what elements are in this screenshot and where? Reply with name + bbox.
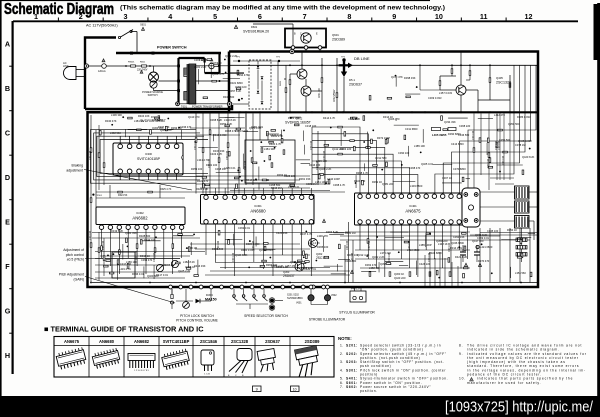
wires lower mid verticals [311, 127, 313, 185]
svg-text:D398 33K: D398 33K [404, 76, 416, 80]
svg-text:Q319 47K: Q319 47K [391, 75, 403, 79]
svg-text:SPEED SELECTOR SWITCH: SPEED SELECTOR SWITCH [244, 314, 288, 318]
wire loops around IC300 [91, 130, 197, 184]
svg-text:R364 1K: R364 1K [277, 173, 287, 177]
svg-text:R359 100: R359 100 [191, 167, 203, 171]
svg-text:8.: 8. [459, 344, 463, 348]
svg-text:C30 100: C30 100 [208, 158, 211, 168]
svg-text:L381 1K: L381 1K [134, 119, 144, 123]
ruler top line [13, 20, 578, 22]
svg-text:P4B 1.9: P4B 1.9 [351, 288, 360, 291]
svg-text:A: A [5, 40, 10, 49]
svg-text:AC 117V(50/60Hz): AC 117V(50/60Hz) [86, 24, 118, 28]
scan edge right [597, 3, 600, 397]
svg-text:L348 1K: L348 1K [438, 242, 448, 246]
svg-text:AN6680: AN6680 [250, 209, 266, 214]
svg-text:TP301: TP301 [96, 195, 103, 197]
diode D304 MA150 [196, 299, 201, 303]
transformer bottom connector line [178, 103, 231, 105]
svg-text:C390 100: C390 100 [398, 151, 410, 155]
svg-text:V601: V601 [296, 302, 302, 305]
svg-text:Q425 2.2K: Q425 2.2K [178, 269, 191, 273]
power transformer T601 windings [184, 64, 196, 104]
wires mid horizontals extra rungs [196, 175, 310, 177]
svg-text:Q354 560: Q354 560 [508, 122, 520, 126]
package drawing 2SC1846 [201, 350, 214, 376]
svg-text:R314 0.01: R314 0.01 [450, 246, 463, 250]
IC401 bottom pins [358, 220, 362, 224]
svg-text:Q346 6800: Q346 6800 [451, 241, 464, 245]
transistor Q402 2SC1328 [456, 85, 466, 95]
svg-text:E: E [5, 218, 10, 227]
svg-text:C30 100: C30 100 [323, 150, 326, 160]
svg-text:Q601: Q601 [332, 33, 339, 37]
left edge components [90, 148, 92, 153]
svg-text:F: F [5, 262, 10, 271]
svg-text:R336 0.01: R336 0.01 [132, 272, 145, 276]
connector ring left edge [227, 102, 231, 106]
svg-text:C368 1M: C368 1M [215, 167, 226, 171]
wires rectifier outputs [277, 61, 279, 112]
svg-text:4.: 4. [340, 368, 344, 372]
IC302 pins [99, 225, 103, 229]
right vertical wires [499, 112, 501, 180]
wires middle vertical bundle [195, 114, 197, 194]
strobe lamp V602 [326, 285, 330, 289]
mid box [245, 140, 295, 183]
svg-text:C602 25WV: C602 25WV [334, 89, 336, 102]
svg-text:L351 560: L351 560 [515, 271, 526, 275]
svg-text:D363 8.2K: D363 8.2K [326, 230, 339, 234]
svg-text:220-240V: 220-240V [137, 69, 148, 72]
svg-text:12: 12 [525, 12, 533, 21]
power section outline [85, 38, 116, 110]
svg-text:C30 100: C30 100 [217, 240, 220, 250]
leader line braking [84, 170, 192, 191]
stylus lamp [350, 291, 366, 302]
svg-text:Q312 560: Q312 560 [375, 156, 387, 160]
svg-text:D314 1K: D314 1K [383, 115, 393, 119]
svg-text:STROBE ILLUMINATOR: STROBE ILLUMINATOR [309, 318, 346, 322]
svg-text:D365 100: D365 100 [317, 245, 329, 249]
wires down to bottom edge right [424, 255, 426, 287]
leader line gain [85, 277, 175, 304]
rectifier dashed box D601 [249, 60, 271, 109]
wires below AN6675 [359, 232, 361, 250]
svg-text:C30 100: C30 100 [487, 158, 490, 168]
svg-text:Pitch Adjustment: Pitch Adjustment [59, 273, 84, 277]
svg-text:L385 10K: L385 10K [414, 144, 425, 148]
svg-text:C30 100: C30 100 [89, 150, 92, 160]
svg-text:7: 7 [303, 12, 307, 21]
svg-text:L357 0.033: L357 0.033 [439, 91, 453, 95]
wires right side loops [468, 65, 536, 193]
svg-text:C368 470: C368 470 [409, 166, 421, 170]
AC line wire [89, 65, 102, 67]
svg-text:V602: V602 [331, 294, 337, 297]
svg-text:[1093x725] http://upic.me/: [1093x725] http://upic.me/ [445, 399, 594, 416]
package drawing 2SD389 [294, 345, 322, 377]
svg-text:4: 4 [168, 12, 172, 21]
svg-text:D601: D601 [251, 25, 258, 29]
svg-text:2SD637: 2SD637 [349, 83, 362, 87]
svg-text:L405 3W05: L405 3W05 [432, 133, 447, 137]
scan edge top [0, 0, 430, 1]
svg-text:120mA: 120mA [98, 70, 106, 73]
svg-text:DB LINE: DB LINE [354, 56, 370, 61]
IC302 AN6682 [96, 207, 185, 225]
svg-text:S602:: S602: [346, 385, 358, 389]
svg-text:D319 8.2K: D319 8.2K [111, 229, 124, 233]
svg-text:10: 10 [435, 12, 443, 21]
line filter components FB601 [131, 65, 136, 67]
test point dots top [238, 60, 240, 62]
svg-text:Q374 8.2K: Q374 8.2K [475, 233, 488, 237]
svg-text:2SD637: 2SD637 [265, 339, 281, 344]
svg-text:Q321 2.2K: Q321 2.2K [194, 65, 207, 69]
IC301 bottom pins [204, 220, 208, 224]
svg-text:R316 0.033: R316 0.033 [213, 133, 227, 137]
svg-text:R341 560: R341 560 [223, 95, 235, 99]
svg-text:Q363 2.2K: Q363 2.2K [225, 54, 238, 58]
svg-text:Q405 0.033: Q405 0.033 [518, 139, 532, 143]
wires staircase to AN6675 top pins [312, 127, 360, 193]
svg-text:R325 4.7K: R325 4.7K [160, 188, 172, 191]
svg-text:Q423 220: Q423 220 [394, 276, 406, 280]
wires upper mid connections [245, 114, 247, 141]
svg-text:IC301: IC301 [254, 204, 262, 208]
svg-text:9: 9 [256, 388, 258, 392]
ruler left line [12, 21, 14, 374]
svg-text:POWER SWITCH: POWER SWITCH [157, 46, 187, 50]
svg-text:D416 220: D416 220 [309, 163, 321, 167]
ruler left ticks [9, 65, 12, 67]
svg-text:D304: D304 [206, 293, 213, 297]
svg-text:Q406 2.2K: Q406 2.2K [319, 167, 332, 171]
note list left column [340, 344, 448, 394]
svg-text:R316 1M: R316 1M [271, 186, 282, 190]
ruler row letters A-H [5, 40, 11, 361]
AC line ring left [84, 64, 88, 68]
svg-text:R364 4.7K: R364 4.7K [271, 134, 284, 138]
wires below AN6680 [205, 232, 207, 255]
svg-text:6: 6 [258, 12, 262, 21]
svg-text:D344 100: D344 100 [144, 238, 156, 242]
svg-text:R404 10K: R404 10K [138, 114, 150, 118]
svg-text:D416 33K: D416 33K [194, 264, 206, 268]
voltage selector switch S602 [149, 72, 159, 82]
svg-text:L382 8.2K: L382 8.2K [183, 260, 195, 264]
svg-text:AN6682: AN6682 [132, 216, 148, 221]
svg-text:H: H [5, 351, 10, 360]
svg-text:C30 100: C30 100 [102, 240, 105, 250]
svg-text:C30 100: C30 100 [226, 150, 229, 160]
svg-text:C368 4.7K: C368 4.7K [333, 183, 346, 187]
svg-text:C336 470: C336 470 [180, 125, 192, 129]
svg-text:Q405: Q405 [496, 76, 503, 80]
svg-text:D368 8.2K: D368 8.2K [210, 118, 223, 122]
IC300 bottom pins [118, 169, 123, 174]
svg-text:C30 100: C30 100 [368, 240, 371, 250]
svg-text:C309 0.033: C309 0.033 [428, 96, 442, 100]
svg-text:R601: R601 [140, 62, 146, 64]
trimmer VR302 [156, 264, 163, 271]
svg-text:Adjustment of: Adjustment of [63, 248, 84, 252]
svg-text:SWITCH: SWITCH [148, 94, 158, 97]
svg-text:AN6675: AN6675 [64, 339, 80, 344]
scattered rotated labels [89, 130, 505, 262]
svg-text:R398 4.7K: R398 4.7K [356, 171, 369, 175]
svg-text:2.: 2. [340, 352, 344, 356]
svg-text:S203:: S203: [346, 360, 358, 364]
svg-text:S201:: S201: [346, 344, 358, 348]
svg-text:Braking: Braking [72, 164, 84, 168]
svg-text:LINE: LINE [63, 64, 69, 68]
transistor Q302 2SC1846 [308, 238, 317, 247]
svg-text:L410 8.2K: L410 8.2K [162, 263, 174, 267]
wires right of DB line [419, 65, 421, 90]
package drawing SWTC4011BP DIP [161, 349, 190, 371]
svg-text:R361 33K: R361 33K [299, 177, 311, 181]
svg-text:C30 100: C30 100 [388, 252, 391, 262]
svg-text:2SD389: 2SD389 [305, 339, 321, 344]
svg-text:D386 0.033: D386 0.033 [517, 115, 531, 119]
watermark bar [0, 396, 600, 417]
components on middle bundle [195, 138, 197, 143]
svg-text:adjustment: adjustment [66, 168, 83, 172]
svg-text:SVITC4011BP: SVITC4011BP [163, 339, 190, 344]
svg-text:C: C [5, 129, 10, 138]
svg-text:D414 4.7K: D414 4.7K [323, 116, 336, 120]
left inner column wires [98, 125, 100, 190]
AC LINE plug [64, 67, 86, 80]
svg-text:C368 220: C368 220 [459, 124, 471, 128]
motor M401 [462, 188, 480, 227]
note warning triangle [470, 378, 474, 381]
svg-text:C420 33K: C420 33K [276, 231, 288, 235]
svg-text:C30 100: C30 100 [472, 130, 475, 140]
IC301 AN6680 [201, 195, 315, 225]
main schematic box outline [88, 52, 539, 288]
svg-text:S202:: S202: [346, 352, 358, 356]
svg-text:L310 8.2K: L310 8.2K [224, 118, 236, 122]
svg-text:C345 100: C345 100 [487, 229, 499, 233]
svg-text:C30 100: C30 100 [498, 140, 501, 150]
pitch control volume VR301 [183, 302, 190, 309]
wires bottom left extra [95, 251, 205, 253]
package drawing 2SC1328 [228, 349, 252, 378]
svg-text:G: G [5, 307, 11, 316]
svg-text:L412 470: L412 470 [494, 113, 505, 117]
left edge vertical wires [90, 115, 92, 283]
junction dots on main bus [195, 111, 197, 113]
svg-text:C413 6800: C413 6800 [451, 142, 464, 146]
svg-text:SVITC4011BP: SVITC4011BP [137, 157, 161, 161]
svg-text:C378 1M: C378 1M [515, 143, 526, 147]
IC300 top pins [118, 144, 123, 149]
transistor box Q601 [285, 29, 326, 48]
components below AN6675 [369, 272, 371, 277]
svg-text:L306 33K: L306 33K [111, 113, 122, 117]
svg-text:D390 6800: D390 6800 [448, 132, 461, 136]
svg-text:C307 1K: C307 1K [442, 176, 452, 180]
svg-text:Q420 8.2K: Q420 8.2K [522, 155, 535, 159]
svg-text:S301:: S301: [346, 368, 358, 372]
svg-text:IC401: IC401 [409, 204, 417, 208]
svg-text:■ TERMINAL GUIDE OF TRANSISTOR: ■ TERMINAL GUIDE OF TRANSISTOR AND IC [44, 325, 204, 334]
middle gap verticals [344, 245, 346, 283]
svg-text:C30 100: C30 100 [89, 230, 92, 240]
wire DB arrow tail [343, 77, 345, 112]
svg-text:3: 3 [124, 12, 128, 21]
svg-text:D316 1K: D316 1K [140, 254, 150, 258]
svg-text:C30 100: C30 100 [252, 240, 255, 250]
svg-text:AN6675: AN6675 [405, 209, 421, 214]
svg-text:R340 47K: R340 47K [105, 119, 117, 123]
svg-text:2SC1846: 2SC1846 [200, 339, 218, 344]
package drawing AN6675 [56, 347, 87, 370]
svg-text:C30 100: C30 100 [194, 140, 197, 150]
svg-text:D5.1: D5.1 [349, 78, 355, 82]
svg-text:D383 33K: D383 33K [288, 116, 300, 120]
svg-text:Q412 220: Q412 220 [332, 147, 344, 151]
page ref mark 9 [253, 386, 262, 392]
svg-text:R308 2.2K: R308 2.2K [301, 266, 314, 270]
IC300 SW/TC4011BP [113, 143, 183, 175]
terminal guide table frame [54, 337, 334, 378]
wires mid horizontals [190, 127, 245, 129]
scattered junction dots [225, 72, 227, 74]
connector ring top edge [290, 49, 294, 53]
svg-text:D370 470: D370 470 [478, 259, 490, 263]
svg-text:C30 100: C30 100 [316, 160, 319, 170]
svg-text:position.: position. [360, 389, 378, 393]
svg-text:SVDSR1B5C: SVDSR1B5C [287, 296, 303, 300]
transformer secondary taps [196, 65, 230, 67]
svg-text:S601: S601 [140, 24, 146, 27]
svg-text:D: D [5, 173, 10, 182]
trimmer VR303 [171, 260, 178, 267]
svg-text:R324 5K: R324 5K [118, 194, 128, 197]
IC401 AN6675 [355, 193, 474, 225]
svg-text:2SC1328: 2SC1328 [496, 81, 511, 85]
svg-text:L303 6800: L303 6800 [410, 184, 423, 188]
svg-text:C30 100: C30 100 [351, 252, 354, 262]
svg-text:Q383 2.2K: Q383 2.2K [271, 264, 284, 268]
long bus lines below ICs [92, 232, 348, 234]
power switch S601 [118, 36, 120, 38]
svg-text:NOTE:: NOTE: [338, 336, 352, 341]
wire pitch to diode [176, 300, 193, 302]
svg-text:2: 2 [79, 12, 83, 21]
svg-text:Q400 560: Q400 560 [147, 274, 159, 278]
svg-text:C30 100: C30 100 [408, 240, 411, 250]
scattered short wires [223, 77, 240, 79]
svg-text:3.: 3. [340, 360, 344, 364]
svg-text:Q413 470: Q413 470 [188, 115, 200, 119]
capacitor pair right [460, 251, 466, 253]
svg-text:9: 9 [392, 12, 396, 21]
svg-text:1: 1 [34, 12, 38, 21]
svg-text:POWER TRANSFORMER: POWER TRANSFORMER [192, 105, 223, 109]
package drawing AN6682 SIP [128, 354, 155, 373]
svg-text:C403 4.7K: C403 4.7K [210, 152, 223, 156]
svg-text:PITCH LOCK SWITCH: PITCH LOCK SWITCH [180, 314, 214, 318]
svg-text:L358 1M: L358 1M [369, 266, 379, 270]
svg-text:Q424 8.2K: Q424 8.2K [235, 253, 248, 257]
coil small bars [516, 238, 527, 242]
package drawing AN6680 [92, 348, 121, 369]
wires above AN6682 [96, 197, 185, 199]
svg-text:10: 10 [293, 388, 297, 392]
terminal guide headers [64, 339, 320, 344]
note list right column [459, 344, 587, 385]
svg-text:C30 100: C30 100 [153, 252, 156, 262]
svg-text:B: B [5, 84, 10, 93]
svg-text:8: 8 [347, 12, 351, 21]
svg-text:±0.5 (Pitch): ±0.5 (Pitch) [67, 258, 84, 262]
svg-text:C30 100: C30 100 [310, 140, 313, 150]
svg-text:R: R [284, 78, 286, 81]
svg-text:C399 470: C399 470 [141, 258, 153, 262]
pitch sub box [112, 252, 135, 278]
ruler column numbers 1-12 [34, 12, 533, 21]
junction dots bus 65 [289, 64, 291, 66]
wires Q601 to box top [292, 49, 294, 51]
svg-text:L331 4.7K: L331 4.7K [308, 241, 320, 245]
speed selector switch S201 [233, 289, 235, 294]
svg-text:C30 100: C30 100 [428, 252, 431, 262]
svg-text:D347 4.7K: D347 4.7K [300, 232, 313, 236]
svg-text:L421 6800: L421 6800 [480, 245, 493, 249]
svg-text:Q361 33K: Q361 33K [125, 231, 137, 235]
svg-text:R380 1M: R380 1M [345, 231, 356, 235]
wires around 2SD637 [290, 73, 297, 75]
fuse F602 120mA [102, 64, 107, 69]
package drawing 2SD637 [257, 349, 277, 373]
svg-text:C30 100: C30 100 [346, 240, 349, 250]
svg-text:AN6682: AN6682 [134, 339, 150, 344]
resistor stack 2SC1328 [451, 65, 453, 76]
svg-text:Q327 100: Q327 100 [210, 61, 222, 65]
svg-text:PITCH CONTROL VOLUME: PITCH CONTROL VOLUME [176, 318, 218, 322]
motor coil blocks [515, 186, 530, 228]
pitch lock switch S301 [171, 289, 173, 294]
svg-text:L381 33K: L381 33K [264, 147, 275, 151]
svg-text:R354 1K: R354 1K [507, 228, 517, 232]
bus line bottom [92, 282, 537, 284]
svg-text:C311 6800: C311 6800 [405, 127, 418, 131]
wires below AN6682 [101, 238, 103, 258]
right column verticals [473, 114, 475, 191]
svg-text:Q368 4.7K: Q368 4.7K [212, 72, 225, 76]
transformer top thick loop with fuse T1.7A [179, 57, 205, 59]
svg-text:C: C [300, 33, 302, 36]
svg-text:R601: R601 [280, 80, 282, 86]
svg-text:C370 6800: C370 6800 [453, 167, 466, 171]
bus line y65 [229, 64, 538, 66]
svg-text:C30 100: C30 100 [244, 160, 247, 170]
svg-text:C30 100: C30 100 [135, 250, 138, 260]
svg-text:Q322 2.2K: Q322 2.2K [372, 255, 385, 259]
svg-text:L425 0.01: L425 0.01 [224, 166, 236, 170]
strobe lamp V601 [309, 285, 313, 289]
svg-text:pitch control: pitch control [66, 253, 85, 257]
svg-text:SVDS91RBA.20: SVDS91RBA.20 [243, 30, 269, 34]
svg-text:Q381 220: Q381 220 [382, 182, 394, 186]
svg-text:Schematic Diagram: Schematic Diagram [4, 1, 114, 18]
svg-text:manufacturer be used for safet: manufacturer be used for safety. [467, 381, 541, 385]
